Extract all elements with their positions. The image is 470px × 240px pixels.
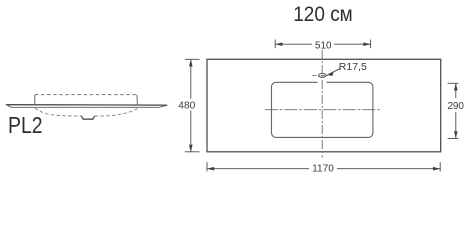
svg-text:PL2: PL2 xyxy=(8,112,43,138)
plan view countertop outer rectangle xyxy=(207,59,441,152)
side view basin rim left edge xyxy=(34,95,36,105)
dimension 510 extension ticks xyxy=(274,40,276,49)
basin drain notch xyxy=(81,116,94,119)
dimension 510 arrows xyxy=(275,42,282,46)
dimension 480 extension ticks xyxy=(185,58,200,60)
dimension 1170 arrows xyxy=(207,167,214,171)
faucet hole ellipse xyxy=(318,74,326,78)
side view basin rim right edge xyxy=(136,95,139,105)
dimension 290 arrows xyxy=(454,83,458,90)
dimension 480 arrows xyxy=(189,59,193,66)
side view basin rim top hidden edge xyxy=(35,94,137,96)
dimension 1170 line xyxy=(207,162,441,171)
horizontal centerline xyxy=(265,109,382,111)
dimension 510 line xyxy=(275,40,370,49)
dimension 290 line xyxy=(448,83,459,138)
svg-text:1170: 1170 xyxy=(312,163,334,174)
svg-text:120 см: 120 см xyxy=(293,2,353,26)
side view basin bowl hidden outline xyxy=(35,108,139,116)
svg-text:290: 290 xyxy=(447,101,464,112)
svg-text:R17,5: R17,5 xyxy=(339,62,367,73)
leader arrowhead xyxy=(326,72,333,75)
svg-text:480: 480 xyxy=(178,100,195,111)
side view countertop slab xyxy=(7,105,168,108)
svg-text:510: 510 xyxy=(315,40,332,51)
plan view basin cutout rounded rectangle xyxy=(272,82,373,137)
vertical centerline xyxy=(321,50,323,158)
dimension 1170 extension ticks xyxy=(206,162,208,171)
faucet hole centerline xyxy=(313,74,333,76)
dimension 290 extension ticks xyxy=(448,82,459,84)
leader line R17,5 xyxy=(329,69,341,75)
dimension 480 line xyxy=(185,59,200,152)
